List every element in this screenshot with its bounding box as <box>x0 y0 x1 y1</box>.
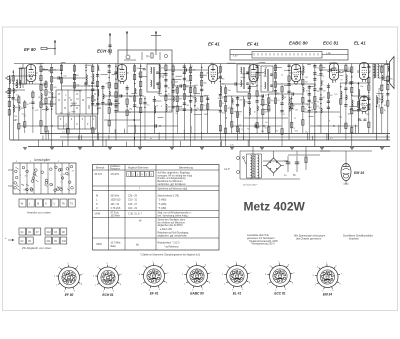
wire H11 <box>226 95 264 97</box>
stage wiring column 58 <box>386 64 393 141</box>
svg-text:5k: 5k <box>197 108 199 110</box>
svg-text:7: 7 <box>167 273 169 275</box>
junction J12 <box>333 69 334 70</box>
svg-text:a 20k b 20k: a 20k b 20k <box>160 229 173 231</box>
mains plug <box>237 151 241 179</box>
svg-text:C30 - 31: C30 - 31 <box>128 200 138 202</box>
svg-text:8: 8 <box>294 105 295 107</box>
svg-text:16: 16 <box>156 105 158 107</box>
svg-text:3n: 3n <box>257 63 259 65</box>
wire H1 <box>9 75 30 77</box>
svg-text:8: 8 <box>329 120 330 122</box>
svg-text:0,5: 0,5 <box>43 104 46 106</box>
svg-text:Abgleich-Elemente: Abgleich-Elemente <box>128 167 149 170</box>
tube socket EL 41 <box>222 262 252 296</box>
resistor R50 <box>305 152 307 170</box>
resistor R1 <box>41 47 47 49</box>
svg-text:30p: 30p <box>264 76 267 78</box>
svg-text:abgleichen (bei 94 MHz): abgleichen (bei 94 MHz) <box>158 225 183 227</box>
svg-text:EF 80: EF 80 <box>65 293 74 297</box>
svg-text:Zuerst den Oszillator, dann: Zuerst den Oszillator, dann <box>158 219 186 222</box>
svg-text:C11: C11 <box>47 241 52 243</box>
svg-text:7V: 7V <box>67 175 70 177</box>
wire H12 <box>268 93 304 95</box>
svg-text:0,25: 0,25 <box>195 85 199 87</box>
antenna arrow A2 <box>126 31 128 55</box>
svg-text:0,5: 0,5 <box>238 114 241 116</box>
svg-text:L: L <box>96 199 98 202</box>
svg-text:563 kHz: 563 kHz <box>111 196 120 198</box>
stage wiring column 30 <box>194 85 199 140</box>
stage wiring column 32 <box>206 96 209 133</box>
svg-text:9: 9 <box>159 289 161 291</box>
svg-text:EF 80: EF 80 <box>24 47 36 52</box>
svg-text:25: 25 <box>168 94 170 96</box>
svg-text:4: 4 <box>226 265 228 267</box>
svg-text:3n: 3n <box>357 72 359 74</box>
svg-text:6: 6 <box>205 264 207 266</box>
svg-text:1k: 1k <box>254 111 256 113</box>
wire top stub <box>54 40 56 55</box>
svg-text:8: 8 <box>292 283 294 285</box>
power rail 2 <box>284 160 288 162</box>
junction J5 <box>121 95 122 96</box>
stage wiring column 23 <box>153 96 156 133</box>
svg-text:150: 150 <box>265 111 268 113</box>
svg-text:60: 60 <box>332 82 334 84</box>
stage wiring column 26 <box>171 64 178 147</box>
wire H21 <box>128 125 178 127</box>
svg-text:0,25: 0,25 <box>230 144 234 146</box>
svg-text:bes. Vorrichtung (siehe Anltg.: bes. Vorrichtung (siehe Anltg.) <box>158 214 189 217</box>
tube EF41b <box>247 65 260 85</box>
tube socket EABC 80 <box>182 262 212 296</box>
stage wiring column 57 <box>381 64 386 134</box>
antenna arrow A3 <box>155 31 157 55</box>
stage wiring column 2 <box>12 70 19 140</box>
svg-text:5: 5 <box>279 262 281 264</box>
stage wiring column 49 <box>319 64 325 134</box>
svg-text:C4: C4 <box>21 232 25 234</box>
power rail 3 <box>296 151 298 155</box>
stage wiring column 21 <box>140 64 146 147</box>
stage wiring column 15 <box>96 64 99 141</box>
svg-text:2k: 2k <box>186 87 188 89</box>
tube ECH81 <box>115 65 128 85</box>
svg-text:C3: C3 <box>54 232 58 234</box>
svg-text:Bandbreite bei Minimum: Bandbreite bei Minimum <box>158 180 183 183</box>
svg-text:2k: 2k <box>291 78 293 80</box>
svg-text:300: 300 <box>261 131 264 133</box>
wire H26 <box>172 85 196 87</box>
bus chassis 4 <box>60 136 390 138</box>
capacitor Ch10 <box>255 124 257 127</box>
svg-text:+: + <box>5 236 7 240</box>
stage wiring column 25 <box>164 64 171 141</box>
svg-text:C2: C2 <box>21 241 25 243</box>
svg-text:8: 8 <box>65 95 66 97</box>
IF transformer T2 <box>237 64 250 92</box>
svg-text:0,1: 0,1 <box>330 138 333 140</box>
svg-text:″ 5 (460): ″ 5 (460) <box>158 200 167 202</box>
antenna arrow A1 <box>109 33 111 55</box>
coil can L1 <box>20 64 27 88</box>
stage wiring column 45 <box>291 96 295 133</box>
svg-text:30p: 30p <box>203 83 206 85</box>
svg-text:2M: 2M <box>295 110 298 112</box>
svg-text:1: 1 <box>128 174 130 176</box>
table rows MLKU <box>96 195 179 211</box>
svg-text:2k: 2k <box>281 74 283 76</box>
svg-text:100: 100 <box>229 107 232 109</box>
power drop 2 <box>305 147 307 153</box>
svg-text:5k: 5k <box>273 101 275 103</box>
svg-text:3: 3 <box>137 174 139 176</box>
svg-text:TS: TS <box>70 203 73 206</box>
junction J8 <box>212 69 213 70</box>
svg-text:0,1: 0,1 <box>98 70 101 72</box>
capacitor Ch8 <box>350 81 352 84</box>
svg-text:3: 3 <box>54 276 56 278</box>
ground G10 <box>290 148 294 150</box>
svg-text:EF 41: EF 41 <box>247 42 259 47</box>
tube socket EM 34 <box>312 263 342 297</box>
speaker LS <box>384 57 394 89</box>
svg-text:16: 16 <box>171 82 173 84</box>
table row ZF <box>95 172 193 191</box>
stage wiring column 33 <box>219 64 226 141</box>
svg-text:70: 70 <box>247 129 249 131</box>
svg-text:2M: 2M <box>186 105 189 107</box>
ground G5 <box>138 148 142 150</box>
svg-text:30p: 30p <box>76 85 79 87</box>
svg-text:7: 7 <box>210 273 212 275</box>
stage wiring column 29 <box>189 64 196 147</box>
tube rectifier <box>358 97 371 115</box>
svg-text:50: 50 <box>293 175 296 177</box>
tube ECC81 <box>327 63 340 83</box>
svg-text:150: 150 <box>190 66 193 68</box>
bus chassis 3 <box>28 146 390 148</box>
svg-text:70: 70 <box>291 73 293 75</box>
junction J9 <box>252 83 253 84</box>
svg-text:100: 100 <box>129 108 132 110</box>
svg-text:16: 16 <box>16 94 18 96</box>
svg-text:1k: 1k <box>138 73 140 75</box>
svg-text:25: 25 <box>261 99 263 101</box>
junction J21 <box>333 125 334 126</box>
svg-text:5k: 5k <box>95 106 97 108</box>
svg-text:EM 34: EM 34 <box>354 171 364 175</box>
svg-text:5n: 5n <box>317 75 319 77</box>
svg-text:16: 16 <box>222 78 224 80</box>
svg-text:0,5: 0,5 <box>47 109 50 111</box>
arrow A4 <box>54 40 56 42</box>
svg-text:5k: 5k <box>264 127 266 129</box>
stage wiring column 1 <box>8 75 14 140</box>
svg-text:EL 41: EL 41 <box>358 118 367 122</box>
svg-text:C7: C7 <box>36 232 40 234</box>
stage wiring column 36 <box>236 96 243 140</box>
svg-text:8: 8 <box>166 283 168 285</box>
junction J6 <box>165 95 166 96</box>
svg-text:″ 5 (405): ″ 5 (405) <box>158 204 167 206</box>
svg-text:EABC 80: EABC 80 <box>190 292 204 296</box>
svg-text:L: L <box>29 203 31 206</box>
svg-text:0,25: 0,25 <box>281 114 285 116</box>
svg-text:7: 7 <box>121 274 123 276</box>
svg-text:Bemerkung: Bemerkung <box>179 166 193 170</box>
svg-text:1M: 1M <box>200 110 203 112</box>
bus drop wires <box>39 125 387 147</box>
stage wiring column 11 <box>73 64 79 91</box>
coil pack box <box>56 90 98 114</box>
svg-text:0: 0 <box>61 181 62 183</box>
antenna coil <box>16 79 21 88</box>
svg-text:2: 2 <box>132 174 134 176</box>
svg-text:200: 200 <box>76 99 79 101</box>
stage wiring column 18 <box>114 64 120 141</box>
tube socket ECC 81 <box>265 262 295 296</box>
svg-text:8: 8 <box>81 284 83 286</box>
ground G9 <box>260 148 264 150</box>
svg-text:6,3V: 6,3V <box>233 56 238 58</box>
wire H3 <box>9 89 25 91</box>
stage wiring column 24 <box>158 64 164 97</box>
svg-text:16: 16 <box>38 97 40 99</box>
svg-text:Ansicht von unten: Ansicht von unten <box>27 211 51 215</box>
svg-text:5n: 5n <box>150 138 152 140</box>
svg-text:200: 200 <box>239 100 242 102</box>
svg-text:16: 16 <box>192 98 194 100</box>
svg-text:60: 60 <box>106 83 108 85</box>
junction J3 <box>73 77 74 78</box>
svg-text:*Netzspannung 220 V: *Netzspannung 220 V <box>251 243 275 246</box>
svg-text:5k: 5k <box>281 84 283 86</box>
electrolytic C50 <box>286 156 291 172</box>
svg-text:0,1: 0,1 <box>345 125 348 127</box>
svg-text:EL 41: EL 41 <box>354 41 366 46</box>
stage wiring column 43 <box>280 85 286 146</box>
svg-text:TA: TA <box>62 203 65 206</box>
svg-text:70: 70 <box>277 100 279 102</box>
svg-text:200: 200 <box>175 82 178 84</box>
dial lamp box <box>230 50 348 61</box>
junction J7 <box>195 109 196 110</box>
svg-text:3: 3 <box>222 274 224 276</box>
stage wiring column 22 <box>143 96 149 140</box>
svg-text:0,1: 0,1 <box>24 115 27 117</box>
svg-text:Umschalter: Umschalter <box>34 158 51 162</box>
wire H18 <box>244 117 288 119</box>
electrolytic C51 <box>295 156 300 172</box>
svg-text:300: 300 <box>348 114 351 116</box>
stage wiring column 44 <box>287 64 294 141</box>
svg-text:300: 300 <box>344 98 347 100</box>
svg-text:4: 4 <box>269 265 271 267</box>
svg-text:(h): (h) <box>136 244 139 247</box>
capacitor Ch5 <box>262 94 264 97</box>
svg-text:8: 8 <box>340 284 342 286</box>
svg-text:70: 70 <box>294 118 296 120</box>
svg-text:200: 200 <box>186 80 189 82</box>
svg-text:0,5: 0,5 <box>147 105 150 107</box>
wire H23 <box>310 125 358 127</box>
svg-text:6: 6 <box>77 266 79 268</box>
wire H8 <box>160 95 207 97</box>
svg-text:UKW: UKW <box>95 213 101 216</box>
svg-text:nachprüfen, ggf. korrigieren: nachprüfen, ggf. korrigieren <box>158 184 187 186</box>
svg-text:C 30, 31, 5, 7: C 30, 31, 5, 7 <box>128 214 143 216</box>
wire H5 <box>52 77 86 79</box>
stage wiring column 8 <box>51 64 57 147</box>
stage wiring column 35 <box>231 96 233 133</box>
svg-text:7V: 7V <box>51 185 54 187</box>
tube socket ECH 81 <box>93 263 123 297</box>
ground G13 <box>380 148 384 150</box>
mains transformer TR <box>247 154 262 178</box>
svg-text:25: 25 <box>382 84 384 86</box>
svg-text:40: 40 <box>69 97 71 99</box>
wire right edge <box>372 64 374 134</box>
svg-text:150: 150 <box>227 90 230 92</box>
stage wiring column 41 <box>268 94 273 140</box>
svg-text:30p: 30p <box>210 63 213 65</box>
svg-text:25: 25 <box>323 97 325 99</box>
svg-text:C8: C8 <box>62 232 66 234</box>
bus chassis 2 <box>10 139 390 141</box>
svg-text:0,25: 0,25 <box>35 110 39 112</box>
stage wiring column 27 <box>176 85 182 133</box>
svg-text:8: 8 <box>294 128 295 130</box>
svg-text:470: 470 <box>306 91 309 93</box>
svg-text:1: 1 <box>17 184 18 186</box>
stage wiring column 48 <box>313 64 319 147</box>
svg-text:0,25: 0,25 <box>22 113 26 115</box>
junction J11 <box>295 83 296 84</box>
table frame and headers <box>93 165 220 251</box>
svg-text:1k: 1k <box>384 110 386 112</box>
svg-text:3: 3 <box>93 276 95 278</box>
svg-text:0,25: 0,25 <box>360 104 364 106</box>
svg-text:7: 7 <box>341 274 343 276</box>
capacitor Ch4 <box>235 82 237 85</box>
capacitor Ch7 <box>330 68 332 71</box>
svg-text:150: 150 <box>334 94 337 96</box>
stage wiring column 13 <box>84 64 90 91</box>
capacitor Ch1 <box>58 76 60 79</box>
wire H10 <box>220 83 244 85</box>
rectifier bridge GL <box>263 151 284 176</box>
svg-text:30p: 30p <box>222 113 225 115</box>
svg-text:0,1: 0,1 <box>42 85 45 87</box>
svg-text:abgleichen, ggf. wiederholen: abgleichen, ggf. wiederholen <box>158 235 188 237</box>
stage wiring column 17 <box>108 64 111 134</box>
ground G7 <box>200 148 204 150</box>
tube socket EF 41 <box>139 262 169 296</box>
svg-text:8: 8 <box>248 98 249 100</box>
svg-text:5k: 5k <box>268 102 270 104</box>
svg-text:0,25: 0,25 <box>273 68 277 70</box>
svg-text:1k: 1k <box>317 102 319 104</box>
stage wiring column 5 <box>31 90 38 133</box>
svg-text:200: 200 <box>257 126 260 128</box>
svg-text:5: 5 <box>326 263 328 265</box>
svg-text:0,5: 0,5 <box>98 108 101 110</box>
svg-text:2k: 2k <box>109 85 111 87</box>
stage wiring column 6 <box>40 64 46 134</box>
svg-text:Auf Max. abgleichen. Regelspg.: Auf Max. abgleichen. Regelspg. <box>158 172 191 175</box>
svg-text:150: 150 <box>161 67 164 69</box>
svg-text:7: 7 <box>250 273 252 275</box>
svg-text:6: 6 <box>151 174 153 176</box>
svg-text:1k: 1k <box>307 104 309 106</box>
capacitor Ch2 <box>120 94 122 97</box>
tube EF80 <box>24 65 37 85</box>
svg-text:110 125 220V~: 110 125 220V~ <box>243 185 258 187</box>
junction J20 <box>263 125 264 126</box>
svg-text:7: 7 <box>82 274 84 276</box>
svg-text:5k: 5k <box>292 105 294 107</box>
svg-text:Ratiokreis auf Null-Durchgang: Ratiokreis auf Null-Durchgang <box>158 232 190 235</box>
wire H2 <box>14 83 46 85</box>
stage wiring column 52 <box>344 64 350 141</box>
svg-text:1M: 1M <box>118 69 121 71</box>
svg-text:4: 4 <box>58 267 60 269</box>
svg-text:2: 2 <box>315 285 317 287</box>
stage wiring column 40 <box>262 96 268 133</box>
svg-text:2: 2 <box>224 284 226 286</box>
bus labels <box>62 132 333 147</box>
svg-text:″ auf Minimum: ″ auf Minimum <box>164 246 179 248</box>
svg-text:25: 25 <box>319 108 321 110</box>
svg-text:EM 34: EM 34 <box>323 293 332 297</box>
antenna cap C1 <box>108 45 111 47</box>
svg-text:ECC 81: ECC 81 <box>274 292 285 296</box>
stage wiring column 9 <box>60 64 66 91</box>
svg-text:40: 40 <box>277 93 279 95</box>
ground G1 <box>23 148 27 150</box>
svg-text:K: K <box>96 203 98 206</box>
wire H6 <box>62 85 98 87</box>
svg-text:6: 6 <box>335 265 337 267</box>
wire H22 <box>232 125 282 127</box>
svg-text:9: 9 <box>332 290 334 292</box>
svg-text:6: 6 <box>245 264 247 266</box>
svg-text:2: 2 <box>95 285 97 287</box>
svg-text:0,1: 0,1 <box>360 100 363 102</box>
wire H14 <box>322 69 352 71</box>
svg-text:a: a <box>22 184 23 186</box>
svg-text:ECC 81: ECC 81 <box>323 41 339 46</box>
wire H9 <box>166 69 208 71</box>
svg-text:5k: 5k <box>175 113 177 115</box>
svg-text:2k: 2k <box>60 113 62 115</box>
svg-text:60: 60 <box>129 112 131 114</box>
capacitor Ch3 <box>185 68 187 71</box>
svg-text:4: 4 <box>141 174 143 176</box>
svg-text:200: 200 <box>305 77 308 79</box>
junction J15 <box>133 119 134 120</box>
junction J18 <box>51 125 52 126</box>
svg-text:EF 41: EF 41 <box>150 292 159 296</box>
svg-text:300: 300 <box>105 105 108 107</box>
svg-text:Frequenz: Frequenz <box>110 169 121 171</box>
svg-text:C6: C6 <box>28 241 32 243</box>
svg-text:C12: C12 <box>47 232 52 234</box>
svg-text:W: W <box>21 203 24 206</box>
svg-text:3: 3 <box>139 274 141 276</box>
